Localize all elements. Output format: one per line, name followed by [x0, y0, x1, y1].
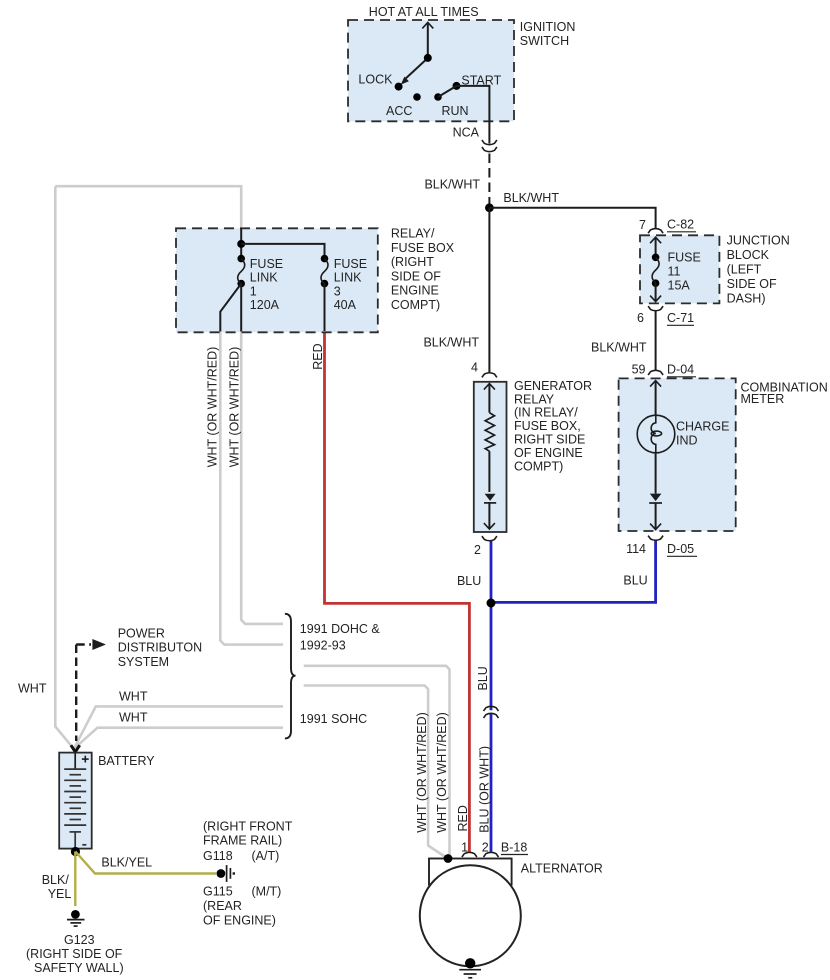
svg-text:G123: G123	[64, 933, 95, 947]
svg-text:RELAY/: RELAY/	[391, 227, 435, 241]
svg-text:RUN: RUN	[442, 104, 469, 118]
svg-text:WHT: WHT	[119, 689, 148, 703]
svg-text:SWITCH: SWITCH	[520, 34, 569, 48]
svg-text:G118: G118	[203, 849, 233, 863]
svg-text:SIDE OF: SIDE OF	[391, 269, 441, 283]
svg-text:BLK/YEL: BLK/YEL	[101, 855, 152, 869]
svg-text:IGNITION: IGNITION	[520, 20, 576, 34]
svg-text:BLK/WHT: BLK/WHT	[424, 177, 480, 191]
svg-text:OF ENGINE: OF ENGINE	[514, 446, 583, 460]
svg-text:G115: G115	[203, 884, 233, 898]
svg-text:SYSTEM: SYSTEM	[118, 655, 169, 669]
svg-text:FUSE: FUSE	[250, 257, 283, 271]
svg-text:WHT (OR WHT/RED): WHT (OR WHT/RED)	[415, 712, 429, 833]
svg-text:ENGINE: ENGINE	[391, 284, 439, 298]
svg-text:FUSE BOX: FUSE BOX	[391, 241, 455, 255]
svg-text:LINK: LINK	[334, 271, 362, 285]
svg-text:DASH): DASH)	[727, 292, 766, 306]
svg-text:59: 59	[632, 363, 646, 377]
svg-text:4: 4	[471, 361, 478, 375]
svg-text:(M/T): (M/T)	[252, 884, 282, 898]
svg-text:(RIGHT SIDE OF: (RIGHT SIDE OF	[26, 947, 123, 961]
svg-text:WHT (OR WHT/RED): WHT (OR WHT/RED)	[206, 347, 220, 468]
svg-text:D-05: D-05	[667, 542, 694, 556]
svg-text:(REAR: (REAR	[203, 899, 242, 913]
svg-text:11: 11	[668, 265, 681, 279]
svg-text:FUSE: FUSE	[668, 251, 701, 265]
svg-text:1: 1	[250, 284, 257, 298]
svg-text:SAFETY WALL): SAFETY WALL)	[34, 961, 124, 975]
svg-text:B-18: B-18	[501, 841, 527, 855]
svg-text:3: 3	[334, 284, 341, 298]
svg-text:FUSE BOX,: FUSE BOX,	[514, 419, 581, 433]
svg-text:HOT AT ALL TIMES: HOT AT ALL TIMES	[369, 5, 479, 19]
svg-text:WHT (OR WHT/RED): WHT (OR WHT/RED)	[435, 712, 449, 833]
svg-text:COMPT): COMPT)	[391, 298, 440, 312]
svg-text:RIGHT SIDE: RIGHT SIDE	[514, 433, 585, 447]
svg-text:(A/T): (A/T)	[252, 849, 280, 863]
svg-text:COMPT): COMPT)	[514, 459, 563, 473]
svg-text:JUNCTION: JUNCTION	[727, 233, 790, 247]
svg-text:BLK/WHT: BLK/WHT	[423, 336, 479, 350]
svg-text:IND: IND	[676, 433, 698, 447]
svg-text:BATTERY: BATTERY	[98, 754, 155, 768]
svg-text:7: 7	[639, 218, 646, 232]
svg-text:BLU (OR WHT): BLU (OR WHT)	[478, 746, 492, 833]
svg-text:BLU: BLU	[623, 574, 647, 588]
svg-text:POWER: POWER	[118, 626, 165, 640]
svg-text:C-71: C-71	[667, 311, 694, 325]
svg-text:NCA: NCA	[453, 125, 480, 139]
svg-text:WHT (OR WHT/RED): WHT (OR WHT/RED)	[228, 347, 242, 468]
svg-text:GENERATOR: GENERATOR	[514, 379, 592, 393]
svg-text:1991 SOHC: 1991 SOHC	[300, 712, 367, 726]
svg-text:(LEFT: (LEFT	[727, 263, 762, 277]
svg-text:C-82: C-82	[667, 218, 694, 232]
svg-text:WHT: WHT	[119, 710, 148, 724]
svg-text:SIDE OF: SIDE OF	[727, 277, 777, 291]
svg-text:40A: 40A	[334, 298, 357, 312]
svg-text:114: 114	[626, 542, 646, 556]
svg-text:BLK/: BLK/	[42, 873, 70, 887]
svg-text:(RIGHT: (RIGHT	[391, 255, 434, 269]
svg-text:(RIGHT FRONT: (RIGHT FRONT	[203, 819, 293, 833]
svg-text:D-04: D-04	[667, 363, 694, 377]
svg-text:LOCK: LOCK	[358, 73, 393, 87]
svg-text:LINK: LINK	[250, 271, 278, 285]
svg-text:FUSE: FUSE	[334, 257, 367, 271]
svg-text:ALTERNATOR: ALTERNATOR	[521, 862, 603, 876]
svg-text:BLOCK: BLOCK	[727, 248, 770, 262]
svg-text:6: 6	[637, 311, 644, 325]
svg-text:ACC: ACC	[386, 104, 412, 118]
svg-text:RELAY: RELAY	[514, 392, 555, 406]
svg-text:RED: RED	[456, 805, 470, 831]
svg-text:1991 DOHC &: 1991 DOHC &	[300, 622, 381, 636]
svg-text:CHARGE: CHARGE	[676, 419, 729, 433]
svg-text:(IN RELAY/: (IN RELAY/	[514, 406, 578, 420]
svg-text:METER: METER	[741, 392, 785, 406]
svg-text:FRAME RAIL): FRAME RAIL)	[203, 833, 282, 847]
svg-text:YEL: YEL	[48, 887, 72, 901]
svg-text:BLU: BLU	[476, 666, 490, 690]
svg-text:120A: 120A	[250, 298, 280, 312]
svg-text:DISTRIBUTON: DISTRIBUTON	[118, 641, 203, 655]
svg-text:1992-93: 1992-93	[300, 638, 346, 652]
svg-text:BLU: BLU	[457, 574, 481, 588]
svg-text:RED: RED	[311, 343, 325, 369]
svg-text:BLK/WHT: BLK/WHT	[503, 191, 559, 205]
svg-text:2: 2	[474, 543, 481, 557]
svg-text:WHT: WHT	[18, 682, 47, 696]
svg-text:15A: 15A	[668, 279, 691, 293]
svg-text:BLK/WHT: BLK/WHT	[591, 340, 647, 354]
svg-text:OF ENGINE): OF ENGINE)	[203, 913, 276, 927]
